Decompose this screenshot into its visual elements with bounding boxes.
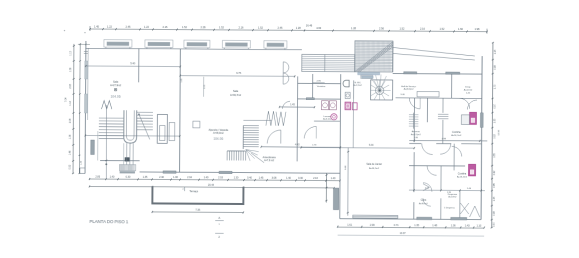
deck planks <box>302 54 355 71</box>
label copa <box>419 200 429 205</box>
svg-text:1.61: 1.61 <box>347 224 352 227</box>
pass-through <box>438 114 449 118</box>
door arc small mid <box>282 101 290 109</box>
svg-text:5.40: 5.40 <box>130 62 135 65</box>
svg-text:1.36: 1.36 <box>70 67 72 72</box>
svg-text:1.52: 1.52 <box>400 27 406 31</box>
wall bwc right <box>352 80 354 147</box>
dimension total 13.37 <box>338 232 485 236</box>
svg-text:1.10: 1.10 <box>477 224 482 227</box>
svg-text:1.40: 1.40 <box>110 176 115 179</box>
door arc despensa <box>459 98 469 108</box>
window top W2 <box>145 40 173 49</box>
dim vertical x204 <box>204 77 207 97</box>
svg-text:1.36: 1.36 <box>451 224 456 227</box>
svg-text:0.97: 0.97 <box>494 103 496 108</box>
door M symbol sala <box>101 101 111 110</box>
label hall servico <box>401 85 417 97</box>
wall x313 <box>312 74 314 99</box>
mark A <box>215 216 224 226</box>
svg-text:1.35: 1.35 <box>143 176 148 179</box>
door arc antecamara <box>267 130 281 144</box>
wall bottom sala <box>100 157 140 161</box>
dimension line terrace <box>152 208 244 213</box>
door arcs cozinha <box>422 144 451 155</box>
dimension cozinha 4.98 <box>409 138 487 142</box>
appliance box <box>461 115 469 125</box>
door double S corridor <box>283 62 289 84</box>
svg-text:7.04: 7.04 <box>66 97 68 102</box>
svg-text:0.40: 0.40 <box>247 176 252 179</box>
wall x415 <box>413 98 416 219</box>
svg-text:2.45: 2.45 <box>126 25 132 29</box>
stair L alpendre <box>227 120 271 163</box>
svg-text:2.16: 2.16 <box>239 26 245 30</box>
counter hall <box>417 91 439 96</box>
wall interior x298 <box>296 76 299 161</box>
svg-text:1.46: 1.46 <box>70 150 72 155</box>
svg-text:A=13,2m2: A=13,2m2 <box>457 175 468 178</box>
room label sala 2 <box>230 89 242 97</box>
copa door mark <box>423 184 430 191</box>
svg-text:1.12: 1.12 <box>494 134 496 139</box>
window top W5 <box>264 41 287 50</box>
dimension y188 <box>409 188 485 195</box>
door arc hallway <box>304 126 316 138</box>
label despensa top <box>464 87 473 95</box>
svg-text:1.43: 1.43 <box>465 224 470 227</box>
svg-text:12.93: 12.93 <box>498 129 500 135</box>
wall right outer <box>481 56 482 219</box>
svg-text:1.45: 1.45 <box>94 25 100 29</box>
label cozinha 2 <box>457 173 468 178</box>
dimension line bottom total <box>89 183 335 189</box>
svg-text:2.04: 2.04 <box>187 176 192 179</box>
svg-text:A=7,9 m2: A=7,9 m2 <box>264 159 275 162</box>
entry steps hatch <box>105 163 135 173</box>
chimney <box>157 114 167 143</box>
tick marks top left <box>64 28 87 34</box>
window bar vestiario <box>306 98 314 100</box>
svg-text:Hall de Serviço: Hall de Serviço <box>401 85 417 88</box>
wall interior x139 <box>138 49 140 83</box>
wall hall top <box>393 73 482 76</box>
svg-text:1.22: 1.22 <box>107 25 113 29</box>
svg-text:Sala: Sala <box>113 80 119 84</box>
room label alpendre <box>208 129 228 141</box>
svg-text:Sala: Sala <box>233 89 239 93</box>
svg-text:2.83: 2.83 <box>95 175 100 178</box>
svg-text:1.48: 1.48 <box>432 224 437 227</box>
svg-text:A=40,2m2: A=40,2m2 <box>369 167 380 170</box>
dimension line bottom left <box>89 175 341 181</box>
svg-text:A=16,7m2: A=16,7m2 <box>451 134 462 137</box>
fireplace wall rect <box>169 123 175 141</box>
label sala de jantar <box>366 163 382 170</box>
svg-text:0.71: 0.71 <box>394 224 399 227</box>
label lavandaria <box>323 116 332 121</box>
svg-text:A=(3,6)m2: A=(3,6)m2 <box>404 88 415 91</box>
door arc copa top <box>427 166 437 176</box>
ramp lines <box>393 48 475 61</box>
door M symbol 2 <box>266 111 276 126</box>
svg-text:5.44: 5.44 <box>369 145 374 147</box>
dimension line left outer <box>65 44 75 174</box>
svg-text:1.30: 1.30 <box>234 176 239 179</box>
svg-text:2.28: 2.28 <box>201 25 207 29</box>
dimension sala jantar 5.44 <box>301 145 415 150</box>
label vestiario <box>317 85 326 88</box>
window left W7 <box>84 94 87 113</box>
svg-text:Terraço: Terraço <box>189 189 198 193</box>
label arrumos <box>411 130 422 139</box>
svg-text:2.45: 2.45 <box>278 26 284 30</box>
door arc cozinha 2 <box>452 146 462 156</box>
level marks top left <box>84 51 88 57</box>
wc door D <box>343 80 349 87</box>
svg-text:2.99: 2.99 <box>370 224 375 227</box>
svg-text:13.37: 13.37 <box>400 232 407 235</box>
svg-text:1.36: 1.36 <box>70 134 72 139</box>
svg-text:4: 4 <box>182 189 183 191</box>
svg-text:Sala de Jantar: Sala de Jantar <box>366 163 382 166</box>
svg-text:1.28: 1.28 <box>351 26 357 30</box>
svg-text:0.92: 0.92 <box>70 164 72 169</box>
dimension vertical sala jantar <box>345 148 349 216</box>
window bottom W13 <box>451 217 467 220</box>
laundry sink pink <box>331 114 337 120</box>
terrace outline <box>152 186 243 204</box>
svg-text:Cozinha: Cozinha <box>458 173 467 175</box>
hatch above spiral <box>361 75 373 79</box>
label despensa 3 <box>444 208 456 210</box>
label bwc <box>353 82 362 87</box>
svg-text:1.70: 1.70 <box>494 84 496 89</box>
dimension line right <box>491 42 501 228</box>
dim 2.95 <box>313 80 325 82</box>
svg-text:2.08: 2.08 <box>70 118 72 123</box>
svg-text:1.40: 1.40 <box>331 177 336 180</box>
wall x443 <box>442 98 444 143</box>
title planta do piso 1 <box>90 219 129 224</box>
svg-text:A=36,7m2: A=36,7m2 <box>230 94 242 97</box>
svg-text:0.98: 0.98 <box>495 65 497 70</box>
door arc hall <box>409 98 420 109</box>
svg-text:2.03: 2.03 <box>218 176 223 179</box>
svg-text:0.30: 0.30 <box>126 176 131 179</box>
svg-text:1.52: 1.52 <box>258 26 264 30</box>
svg-text:1.60: 1.60 <box>458 27 464 31</box>
svg-text:A=1,9m2: A=1,9m2 <box>353 84 362 87</box>
label despensa 2 <box>448 194 458 199</box>
window top W3 <box>184 40 210 49</box>
svg-text:A=45,9m2: A=45,9m2 <box>213 132 224 135</box>
door arc right wall <box>467 100 477 110</box>
wall x452 <box>451 74 453 98</box>
window hall W11 <box>446 72 460 74</box>
dimension line top <box>89 22 487 33</box>
room label antecamara <box>263 156 277 162</box>
svg-text:1.55: 1.55 <box>494 153 496 158</box>
svg-text:0.57: 0.57 <box>493 222 495 227</box>
svg-text:1.98: 1.98 <box>475 27 481 31</box>
fridge pink 1 <box>470 112 477 124</box>
wall y141 <box>409 142 481 144</box>
dimension antecamara 4.43 <box>261 144 341 148</box>
svg-text:3.08: 3.08 <box>272 177 277 180</box>
svg-text:2.16: 2.16 <box>313 177 318 180</box>
svg-text:A=(2,5)m2: A=(2,5)m2 <box>411 133 422 136</box>
blue strips <box>358 72 380 78</box>
svg-text:1.15: 1.15 <box>495 49 497 54</box>
dim label vertical x182 <box>181 78 183 83</box>
wall service east x341 <box>339 74 342 218</box>
window west sala jantar <box>333 188 338 210</box>
svg-text:Antecâmara: Antecâmara <box>263 156 277 159</box>
wall bottom right section <box>340 218 481 221</box>
svg-text:1.52: 1.52 <box>440 27 446 31</box>
window right wall <box>480 113 483 128</box>
svg-text:1.06: 1.06 <box>173 176 178 179</box>
svg-text:PLANTA DO PISO 1: PLANTA DO PISO 1 <box>90 219 129 224</box>
svg-text:104.06: 104.06 <box>213 137 223 141</box>
svg-text:Cozinha: Cozinha <box>452 132 461 134</box>
svg-text:20.44: 20.44 <box>208 184 215 187</box>
door arcs copa <box>423 183 432 207</box>
window top W4 <box>222 40 250 49</box>
svg-text:1.13: 1.13 <box>70 50 72 55</box>
svg-text:1.52: 1.52 <box>182 25 188 29</box>
svg-text:0.30: 0.30 <box>298 177 303 180</box>
door X despensa <box>460 203 469 214</box>
svg-text:0.98: 0.98 <box>494 211 496 216</box>
svg-text:6.75: 6.75 <box>236 72 241 75</box>
dim vertical x327 <box>325 173 327 202</box>
svg-text:+: + <box>84 30 86 34</box>
svg-text:1.22: 1.22 <box>144 25 150 29</box>
window bottom W9 <box>219 171 232 173</box>
svg-text:0.85: 0.85 <box>494 183 496 188</box>
svg-text:2.56: 2.56 <box>379 27 385 31</box>
radiator arrumos <box>409 113 419 129</box>
dimension line bottom right <box>337 223 485 228</box>
svg-text:1.45: 1.45 <box>290 104 295 106</box>
svg-text:A=1,8m2: A=1,8m2 <box>448 195 457 198</box>
dimension 1.45 <box>279 104 315 108</box>
room label sala 1 <box>110 80 122 99</box>
door M symbol 3 <box>276 112 286 126</box>
svg-text:Desp.: Desp. <box>465 87 471 89</box>
svg-text:+: + <box>64 28 66 32</box>
mark 2 <box>215 233 224 239</box>
wc toilet pink <box>345 102 351 110</box>
dimension sala2 6.75 <box>180 71 296 77</box>
svg-text:1.12: 1.12 <box>70 100 72 105</box>
wall top <box>85 48 301 49</box>
dim wall thickness top left <box>78 43 90 45</box>
wall y96 <box>396 97 482 100</box>
svg-text:1.05: 1.05 <box>494 196 496 201</box>
dimension line left inner <box>78 43 83 174</box>
svg-text:Alpendre / Varanda: Alpendre / Varanda <box>209 129 229 132</box>
window bottom W8 <box>163 171 176 173</box>
wall lavand bottom <box>314 120 340 122</box>
svg-text:1.45: 1.45 <box>259 177 264 180</box>
svg-text:2.16: 2.16 <box>420 27 426 31</box>
svg-text:4.60: 4.60 <box>316 26 322 30</box>
svg-text:A=27,9m2: A=27,9m2 <box>110 84 122 87</box>
terrace label <box>189 189 198 193</box>
svg-text:1.28: 1.28 <box>296 26 302 30</box>
svg-text:1.05: 1.05 <box>494 118 496 123</box>
wall vestiario top <box>298 82 341 84</box>
svg-text:7.36: 7.36 <box>195 209 200 212</box>
furniture rect <box>193 121 200 128</box>
svg-text:A=9,6m2: A=9,6m2 <box>419 202 429 205</box>
window left W6 <box>85 61 88 79</box>
wall x428 <box>426 98 428 122</box>
svg-text:2.16: 2.16 <box>163 25 169 29</box>
svg-text:104.06: 104.06 <box>110 95 120 99</box>
window hall W10 <box>404 72 417 74</box>
svg-text:A: A <box>218 216 220 220</box>
terrace small tick <box>182 187 184 191</box>
radiator left <box>91 140 95 155</box>
svg-text:1.35: 1.35 <box>414 224 419 227</box>
wall x393 <box>392 42 394 72</box>
wc sink <box>345 92 350 98</box>
svg-text:1.52: 1.52 <box>219 25 225 29</box>
dimension sala 5.40 <box>85 62 181 67</box>
svg-text:2.08: 2.08 <box>70 83 72 88</box>
svg-text:1.40: 1.40 <box>286 177 291 180</box>
window top W1 <box>104 40 132 49</box>
svg-text:Arrumos: Arrumos <box>412 130 421 133</box>
window bottom W12 <box>417 217 432 220</box>
wc bidet pink <box>352 103 357 110</box>
svg-text:1 Despensa: 1 Despensa <box>444 208 456 210</box>
svg-text:1.40: 1.40 <box>204 176 209 179</box>
exterior stair hatch <box>355 41 393 72</box>
wall left <box>80 41 88 174</box>
wall x461 <box>459 190 461 219</box>
stair main U <box>84 105 180 180</box>
svg-text:Vestiário: Vestiário <box>317 85 326 88</box>
svg-text:16.46: 16.46 <box>306 24 313 28</box>
svg-text:A=4,1m2: A=4,1m2 <box>464 88 473 91</box>
spiral stair <box>370 74 392 100</box>
window sliding sala jantar <box>353 215 398 218</box>
door V mark <box>470 206 480 217</box>
wall x455 <box>453 144 455 171</box>
wall y163 <box>409 165 465 167</box>
washing machines <box>321 101 336 110</box>
svg-text:0.92: 0.92 <box>494 170 496 175</box>
svg-text:2.40: 2.40 <box>159 176 164 179</box>
svg-text:4.43: 4.43 <box>295 144 300 146</box>
label cozinha 1 <box>451 132 462 137</box>
wall x442 <box>440 166 442 219</box>
wall y97 <box>298 98 341 100</box>
wall bottom left section <box>140 172 340 173</box>
wall interior x180 <box>179 49 182 172</box>
stove pink 2 <box>469 164 476 176</box>
